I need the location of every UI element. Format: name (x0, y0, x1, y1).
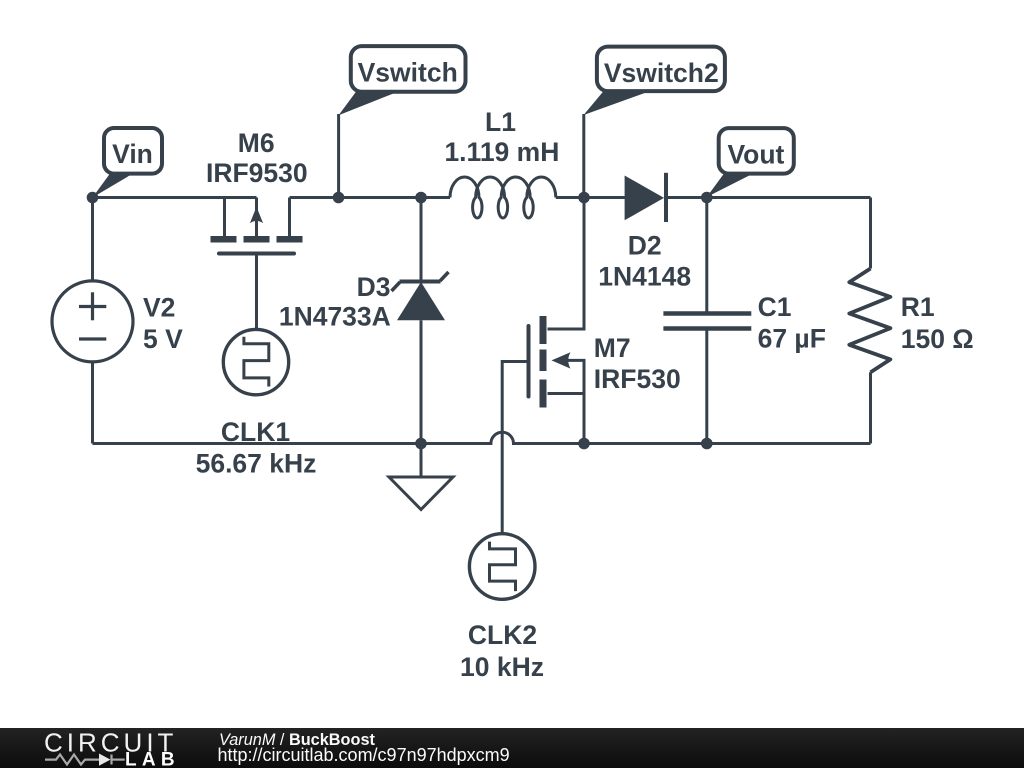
CircuitLab logo diode triangle (99, 754, 111, 766)
label M6 value (206, 128, 308, 188)
transistor M6 (PMOS IRF9530) (219, 198, 294, 254)
transistor M7 (NMOS IRF530) (540, 316, 571, 408)
svg-text:56.67 kHz: 56.67 kHz (196, 449, 317, 479)
svg-text:D3: D3 (357, 272, 391, 302)
svg-text:Vin: Vin (112, 139, 153, 169)
label CLK1 value (196, 417, 317, 479)
label C1 value (758, 292, 826, 354)
footer bar (0, 728, 1024, 768)
label D2 value (598, 231, 691, 292)
svg-text:L1: L1 (485, 107, 516, 137)
label M7 value (594, 333, 681, 394)
node Vin flag (93, 128, 163, 198)
wire M6 gate stub to CLK1 (255, 256, 258, 329)
diode D3 (zener 1N4733A) (392, 272, 449, 291)
svg-text:1N4733A: 1N4733A (279, 302, 391, 332)
svg-text:1.119 mH: 1.119 mH (444, 137, 559, 167)
svg-text:150 Ω: 150 Ω (901, 324, 974, 354)
node Vout flag (707, 128, 794, 197)
wire top rail inductor to diode D2 anode (556, 196, 625, 199)
label L1 value (444, 107, 559, 167)
node ground junction dot (415, 438, 427, 450)
wire V2 bottom lead (91, 363, 94, 444)
node Vin junction dot (87, 192, 99, 204)
svg-text:IRF9530: IRF9530 (206, 158, 308, 188)
svg-text:67 µF: 67 µF (758, 323, 826, 353)
svg-text:C1: C1 (758, 292, 792, 322)
node C1 bottom junction dot (701, 438, 713, 450)
capacitor C1 plates (663, 314, 751, 329)
label D3 value (279, 272, 391, 332)
wire M7 gate lead to CLK2 (502, 362, 528, 535)
svg-text:http://circuitlab.com/c97n97hd: http://circuitlab.com/c97n97hdpxcm9 (218, 745, 510, 765)
wire C1 top lead (705, 198, 708, 312)
ground (389, 444, 453, 510)
label R1 value (901, 292, 974, 354)
wire R1 bottom lead (869, 372, 872, 443)
node Vswitch junction dot (333, 192, 345, 204)
CircuitLab logo wordmark (44, 727, 180, 768)
wire bottom rail with hop over CLK2 wire (93, 432, 871, 443)
wire R1 top lead (869, 198, 872, 269)
wire V2 top lead (91, 198, 94, 281)
CircuitLab logo resistor-diode squiggle (45, 755, 125, 765)
svg-text:Vswitch2: Vswitch2 (604, 58, 719, 88)
clock source CLK2 (469, 534, 535, 600)
node Vswitch2 flag (584, 47, 725, 198)
inductor L1 (450, 177, 556, 218)
svg-text:V2: V2 (143, 293, 175, 323)
wire C1 bottom lead (705, 331, 708, 444)
svg-text:D2: D2 (628, 231, 662, 261)
wire D3 top lead (420, 198, 423, 281)
wire top rail D2 cathode to R1 top (666, 196, 871, 199)
svg-text:CLK1: CLK1 (221, 417, 290, 447)
wire top rail M6 drain to inductor L1 (290, 196, 451, 199)
svg-text:10 kHz: 10 kHz (460, 652, 544, 682)
svg-text:M7: M7 (594, 333, 631, 363)
label V2 value (143, 293, 183, 355)
wire D3 bottom lead (420, 320, 423, 443)
node D3 top junction dot (415, 192, 427, 204)
node M7 source junction dot (578, 438, 590, 450)
node Vout junction dot (701, 192, 713, 204)
node Vswitch flag (339, 46, 466, 197)
svg-text:Vout: Vout (727, 139, 784, 169)
svg-text:LAB: LAB (125, 750, 180, 768)
clock source CLK1 (223, 329, 288, 394)
svg-text:Vswitch: Vswitch (358, 58, 458, 88)
svg-text:M6: M6 (238, 128, 275, 158)
resistor R1 zigzag (849, 269, 890, 373)
wire M7 source lead (548, 394, 585, 444)
svg-text:1N4148: 1N4148 (598, 261, 691, 291)
wire M7 drain lead (548, 198, 585, 330)
svg-text:CLK2: CLK2 (468, 620, 537, 650)
label CLK2 value (460, 620, 544, 682)
diode D2 (1N4148) (625, 176, 664, 221)
svg-text:5 V: 5 V (143, 324, 183, 354)
wire top rail left (Vin to M6 source) (93, 196, 257, 199)
voltage source V2 (52, 281, 133, 362)
node Vswitch2 junction dot (578, 192, 590, 204)
svg-text:IRF530: IRF530 (594, 364, 681, 394)
svg-text:R1: R1 (901, 292, 935, 322)
